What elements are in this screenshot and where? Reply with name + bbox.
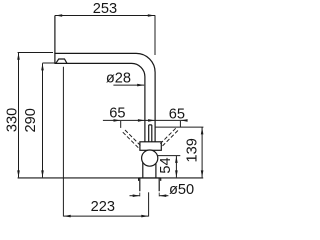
dashed swung spray head right	[160, 128, 175, 143]
left 65 extension stub	[120, 121, 122, 128]
spout left edge / 253 left extension	[54, 16, 56, 64]
nozzle axis extension	[62, 67, 64, 217]
svg-text:ø50: ø50	[169, 182, 194, 198]
right 65 extension stub	[179, 121, 181, 128]
spray head neck	[149, 125, 152, 142]
svg-text:290: 290	[23, 108, 39, 132]
dim 290 extension	[43, 62, 56, 64]
arrow 253 left	[55, 14, 62, 17]
dim 253 right extension	[154, 15, 156, 55]
arrow 223 right	[141, 215, 148, 218]
arrow 65 left outer	[114, 119, 121, 122]
arrow 290 bottom	[41, 170, 44, 177]
dim 139 extension	[155, 126, 203, 128]
dim 330 line	[18, 53, 20, 178]
dia28 arrow line	[113, 84, 144, 86]
svg-text:330: 330	[4, 108, 20, 132]
arrow 65 at pipe left edge	[138, 119, 145, 122]
arrow 139 bottom	[201, 170, 204, 177]
dim 330 extension	[18, 52, 53, 54]
svg-text:54: 54	[158, 157, 174, 173]
spout bottom edge and inner corner arc into down tube left edge	[54, 63, 144, 141]
dia50 left arrow line	[130, 195, 140, 197]
arrow dia50 left	[133, 194, 140, 197]
ball joint	[142, 150, 158, 166]
arrow 54 top	[175, 156, 178, 163]
dim 290 line	[42, 63, 44, 177]
svg-text:65: 65	[109, 105, 125, 121]
arrow 330 top	[17, 53, 20, 60]
dim 139 line	[201, 127, 203, 177]
svg-text:ø28: ø28	[106, 71, 131, 87]
arrow 54 bottom	[175, 170, 178, 177]
dim 223 line	[63, 215, 148, 217]
dim 54 line	[175, 156, 177, 178]
base cylinder sides	[140, 178, 159, 191]
counter line with base flange	[18, 177, 204, 179]
arrow dia50 right	[159, 194, 166, 197]
svg-text:65: 65	[169, 106, 185, 122]
arrow 330 bottom	[17, 170, 20, 177]
svg-text:139: 139	[185, 138, 201, 162]
spout top edge and outer corner arc into down tube right edge	[54, 53, 155, 141]
arrow 139 top	[201, 127, 204, 134]
body column below ball	[143, 160, 156, 178]
arrow 65 right outer	[181, 119, 188, 122]
arrow 290 top	[41, 63, 44, 70]
body axis extension	[148, 192, 150, 216]
nozzle dome on spout underside	[56, 59, 67, 63]
svg-text:253: 253	[93, 1, 117, 17]
arrow dia28	[137, 84, 144, 87]
arrow 65 at pipe right edge	[148, 119, 155, 122]
svg-text:223: 223	[91, 199, 115, 215]
head holder block	[140, 142, 161, 151]
dim 65/65 line	[103, 119, 187, 121]
base flange	[139, 178, 161, 181]
dia50 right arrow line	[160, 195, 169, 197]
dashed swung spray head left	[123, 128, 178, 148]
arrow 253 right	[148, 14, 155, 17]
arrow 223 left	[64, 215, 71, 218]
dim 253 line	[55, 15, 155, 17]
base edge extensions to diameter dim	[140, 193, 159, 197]
dim 54 extension	[158, 155, 180, 157]
